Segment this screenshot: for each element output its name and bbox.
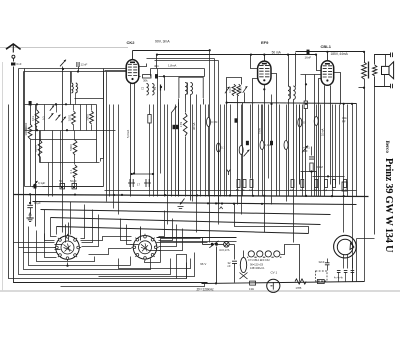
IF transformer 1 frame	[179, 77, 203, 98]
coil ant 2	[76, 83, 78, 93]
trimmer arrow	[61, 117, 66, 123]
wire	[242, 103, 244, 197]
wire socket2 right exit	[149, 250, 161, 252]
node	[62, 68, 64, 70]
wire	[62, 67, 64, 197]
svg-text:CY1 CBL1 EF9 CK2: CY1 CBL1 EF9 CK2	[248, 259, 270, 262]
wire mains top	[157, 237, 237, 239]
osc coil 1001	[228, 84, 236, 96]
svg-text:40n: 40n	[154, 64, 159, 68]
label	[249, 189, 253, 192]
wire	[327, 259, 329, 263]
svg-text:0.1: 0.1	[69, 169, 73, 174]
label	[317, 165, 324, 169]
node	[160, 86, 162, 88]
wire CK2 heater down	[134, 84, 136, 174]
wire EF9 grid left	[251, 55, 258, 69]
wire	[220, 105, 222, 197]
trimmer arrow	[50, 105, 54, 110]
osc coil 3001	[237, 84, 243, 96]
svg-text:4n 4n 4n: 4n 4n 4n	[334, 278, 344, 280]
wire nest 16	[13, 282, 15, 284]
coil 103	[31, 110, 39, 127]
ballast tube	[240, 257, 248, 279]
wire CBL1 cath down b	[330, 86, 332, 185]
wire	[218, 244, 224, 246]
wire	[185, 99, 187, 113]
antenna terminal	[12, 55, 15, 58]
wire OT bottom	[364, 79, 366, 197]
lamp dial	[224, 242, 230, 248]
wire	[244, 93, 246, 103]
svg-text:0,1µF: 0,1µF	[38, 181, 45, 185]
heater chain	[247, 251, 281, 257]
wire seg b	[313, 176, 345, 178]
capacitor speaker bottom	[391, 84, 393, 89]
wire	[345, 273, 347, 282]
wire	[96, 105, 98, 163]
wire	[314, 75, 316, 197]
wire nest 5	[130, 257, 132, 266]
junction	[270, 103, 272, 105]
wire	[356, 104, 358, 197]
scan page edge left	[2, 62, 4, 291]
wire	[178, 103, 180, 197]
label 5.6mA	[126, 130, 130, 138]
scan page edge bottom	[0, 290, 400, 292]
tube socket V1	[54, 234, 81, 261]
capacitor	[176, 125, 179, 129]
svg-text:96 V: 96 V	[200, 262, 206, 266]
label	[228, 264, 231, 268]
junction	[55, 103, 57, 105]
wire	[218, 153, 220, 225]
wire	[52, 131, 54, 197]
IF1 coil a	[185, 83, 187, 95]
wire	[156, 55, 158, 69]
IF1 coil b	[191, 83, 193, 95]
label	[332, 189, 335, 192]
junction	[250, 54, 252, 56]
svg-text:5000: 5000	[69, 144, 73, 151]
capacitor	[29, 101, 32, 105]
wire	[106, 72, 108, 202]
junction	[207, 202, 209, 204]
svg-text:1,8mA: 1,8mA	[168, 64, 176, 68]
label	[250, 267, 265, 270]
wire CK2 grid left	[105, 70, 127, 72]
wire	[279, 105, 281, 197]
IF2 coil b	[293, 86, 295, 100]
wire nest 9	[157, 242, 208, 244]
wire	[230, 105, 232, 197]
capacitor speaker top	[391, 53, 393, 58]
tube CK2	[126, 60, 139, 84]
wire	[103, 71, 105, 159]
resistor	[304, 101, 307, 109]
wire nest 13	[81, 237, 132, 241]
wire left frame 1	[9, 105, 187, 279]
wire	[160, 91, 162, 174]
resistor 0,2	[325, 180, 328, 188]
wire	[73, 125, 75, 131]
wire feeder 2	[155, 60, 219, 62]
wire	[224, 105, 226, 197]
wire	[352, 258, 354, 269]
speaker voice coil	[373, 65, 377, 76]
wire	[234, 264, 236, 283]
svg-text:3000: 3000	[85, 114, 89, 121]
wire socket2 left entry	[131, 244, 139, 246]
junction	[327, 175, 329, 177]
capacitor CV1	[267, 279, 280, 292]
svg-text:90V, 3mA: 90V, 3mA	[155, 40, 170, 44]
svg-text:103: 103	[31, 116, 35, 121]
label 90V 3mA	[155, 40, 170, 44]
wire	[113, 105, 115, 209]
wire	[286, 150, 288, 202]
resistor	[314, 117, 318, 126]
svg-text:36mA: 36mA	[192, 123, 196, 130]
label	[303, 149, 308, 153]
svg-text:EF9: EF9	[261, 40, 269, 45]
wire drop i	[121, 219, 132, 241]
wire drop m	[159, 225, 177, 247]
resistor	[284, 141, 288, 150]
junction	[287, 54, 289, 56]
wire electrolytic rail	[43, 186, 104, 188]
junction	[66, 265, 68, 267]
wire	[192, 105, 194, 202]
wire anode rail 90V	[133, 50, 210, 52]
label heater order	[248, 259, 270, 262]
resistor 5k	[243, 180, 246, 188]
junction	[215, 202, 217, 204]
wire CBL1 cath down a	[324, 86, 326, 197]
capacitor	[337, 271, 341, 273]
label 10000	[24, 122, 28, 130]
wire antenna down	[14, 67, 208, 283]
junction	[261, 203, 263, 205]
junction	[217, 202, 219, 204]
wire	[24, 69, 26, 187]
coil 0375	[34, 140, 42, 157]
wire tuner rail C	[40, 162, 100, 164]
coil 1001	[67, 111, 75, 125]
resistor	[342, 182, 347, 191]
wire	[262, 150, 264, 197]
wire	[75, 98, 104, 100]
wire left frame 2	[19, 69, 55, 248]
wire	[226, 85, 228, 103]
junction	[66, 129, 68, 131]
ground	[27, 213, 34, 222]
svg-text:12nF: 12nF	[81, 63, 88, 67]
wire socket1 left entry a	[55, 244, 63, 246]
wire nest 3	[19, 248, 171, 275]
tube socket V2	[131, 234, 158, 261]
junction	[305, 195, 307, 197]
wire CBL1 grid left	[317, 55, 322, 71]
svg-text:7mA: 7mA	[258, 128, 262, 134]
wire	[178, 99, 180, 197]
wire tuner rail B	[25, 130, 116, 132]
label	[137, 183, 141, 187]
wire grid rail lower	[24, 71, 127, 73]
label 185V 44mA	[331, 52, 349, 56]
wire	[71, 72, 73, 83]
label 1785	[296, 286, 302, 290]
svg-text:3001: 3001	[239, 87, 243, 93]
wire	[293, 100, 295, 243]
wire grid rail upper	[19, 68, 127, 70]
svg-text:1785: 1785	[296, 286, 302, 290]
wire	[226, 103, 228, 197]
wire	[203, 99, 205, 105]
wire	[74, 179, 76, 187]
wire	[347, 255, 349, 269]
resistor 50	[315, 180, 318, 188]
wire	[295, 53, 297, 87]
diode Y mark	[227, 170, 231, 176]
svg-text:0,1M: 0,1M	[317, 165, 324, 169]
junction	[263, 195, 265, 197]
wire	[208, 127, 210, 197]
wire EF9 pin left	[253, 79, 258, 197]
resistor 4n	[301, 180, 304, 188]
wire	[74, 131, 76, 141]
resistor 1n	[333, 180, 336, 188]
wire	[299, 105, 301, 185]
label	[319, 260, 325, 264]
resistor	[216, 143, 225, 152]
svg-text:PF: PF	[342, 120, 346, 124]
wire	[234, 245, 236, 260]
wire	[332, 105, 334, 197]
svg-text:+CV1: +CV1	[303, 146, 310, 150]
wire	[74, 155, 76, 165]
wire	[70, 72, 72, 105]
junction	[133, 172, 135, 174]
wire	[171, 113, 173, 197]
capacitor	[344, 271, 348, 273]
wire speaker stub top	[385, 55, 387, 67]
wire	[359, 87, 365, 89]
svg-text:16nF: 16nF	[305, 56, 312, 60]
wire	[208, 105, 210, 118]
wire	[241, 155, 243, 215]
trimmer arrow	[60, 60, 66, 67]
junction	[221, 202, 223, 204]
rectifier socket CY1	[334, 235, 357, 258]
wire	[343, 104, 345, 233]
label 1.8mA	[168, 64, 176, 68]
wire	[60, 131, 62, 187]
junction	[156, 54, 158, 56]
wire socket1 tail	[68, 263, 131, 266]
node	[163, 75, 165, 77]
wire drop j	[127, 225, 132, 245]
speaker	[382, 62, 394, 79]
label 36mA	[192, 123, 196, 130]
label	[303, 146, 310, 150]
svg-text:ZF=128kHz: ZF=128kHz	[197, 288, 214, 292]
capacitor	[270, 141, 273, 145]
wire left frame 3	[24, 72, 57, 253]
wire	[190, 95, 192, 201]
wire	[347, 105, 349, 197]
svg-text:1001: 1001	[67, 114, 71, 121]
wire	[30, 195, 32, 205]
wire	[218, 105, 220, 155]
wire	[305, 109, 307, 197]
wire	[281, 245, 300, 282]
resistor	[318, 279, 325, 283]
wire CK2 cathode down	[130, 84, 132, 197]
wire	[299, 127, 301, 185]
junction	[326, 51, 328, 53]
wire	[200, 105, 202, 197]
wire	[30, 139, 32, 187]
junction	[121, 194, 123, 196]
trimmer arrow	[243, 86, 248, 93]
wire EF9 pin right	[271, 74, 277, 197]
label	[38, 181, 45, 185]
wire	[91, 105, 93, 111]
bus 5	[57, 227, 309, 234]
wire screen rail	[157, 54, 289, 56]
junction	[305, 103, 307, 105]
label	[343, 189, 347, 192]
junction	[343, 195, 345, 197]
wire	[185, 137, 187, 197]
wire	[302, 172, 304, 179]
label	[342, 120, 346, 124]
capacitor	[173, 125, 176, 129]
wire	[311, 147, 313, 156]
trimmer arrow	[49, 113, 54, 119]
wire	[302, 105, 304, 197]
capacitor 32nF mains	[232, 261, 237, 263]
coil 5000	[69, 140, 77, 155]
coil 0.1	[69, 165, 77, 178]
wire	[316, 172, 318, 177]
label ZF	[197, 288, 214, 292]
label 7mA	[258, 128, 262, 134]
capacitor 40nF	[155, 74, 158, 78]
junction	[315, 54, 317, 56]
antenna	[6, 44, 21, 53]
resistor wirewound	[295, 279, 306, 284]
svg-text:CK2: CK2	[127, 40, 136, 45]
svg-text:185V, 44mA: 185V, 44mA	[331, 52, 349, 56]
junction	[29, 193, 31, 195]
wire CK2 pin right b	[139, 76, 141, 78]
junction	[163, 75, 165, 77]
wire	[73, 105, 75, 111]
wire	[36, 127, 38, 131]
label	[300, 189, 303, 192]
wire speaker bottom	[375, 77, 391, 87]
label	[250, 263, 264, 266]
wire	[109, 105, 111, 197]
wire antenna lead	[13, 59, 15, 62]
wire drop h	[82, 215, 99, 247]
tuning gang link	[131, 173, 155, 175]
wire	[164, 105, 166, 197]
junction	[113, 194, 115, 196]
wire	[364, 197, 366, 282]
svg-text:CV 1: CV 1	[271, 271, 278, 275]
wire right drop	[374, 87, 376, 235]
junction	[74, 194, 76, 196]
wire nest 17	[61, 284, 205, 287]
svg-text:6nF: 6nF	[16, 62, 21, 66]
wire nest 18	[60, 263, 62, 287]
label	[290, 189, 294, 192]
wire	[237, 96, 239, 205]
wire	[167, 105, 169, 225]
coil 3000	[85, 111, 93, 124]
wire corner	[101, 159, 104, 162]
bus 1	[14, 195, 369, 197]
wire	[204, 69, 206, 77]
wire socket1 top entry b	[68, 223, 70, 241]
wire	[214, 59, 216, 105]
wire antenna entry	[14, 242, 55, 244]
wire nest 2	[24, 253, 151, 270]
title Berco	[384, 141, 389, 154]
wire osc bottom rail	[227, 103, 357, 104]
junction	[164, 194, 166, 196]
trimmer arrow	[171, 106, 176, 112]
label 30k PF	[342, 116, 347, 120]
capacitor	[235, 118, 238, 122]
wire 1.8mA line	[151, 68, 205, 70]
coil 30000	[24, 124, 32, 139]
wire	[250, 105, 252, 179]
wire	[262, 105, 264, 141]
wire tuner rail D	[25, 186, 104, 188]
IF2 core	[290, 87, 292, 99]
svg-text:50 mA: 50 mA	[272, 51, 282, 55]
wire drop e	[70, 202, 72, 235]
wire seg a	[301, 171, 317, 173]
wire	[30, 208, 32, 214]
label	[324, 189, 328, 192]
coil C0	[152, 84, 154, 96]
wire	[48, 163, 50, 197]
wire	[230, 244, 235, 246]
wire nest 1	[29, 227, 68, 266]
wire nest 14	[119, 259, 191, 269]
wire CBL1 anode top	[327, 52, 329, 61]
bus mains	[202, 282, 365, 284]
wire	[196, 95, 198, 233]
label CBL1	[321, 44, 332, 49]
capacitor ground	[27, 205, 32, 207]
node	[36, 103, 38, 105]
svg-text:0,3M: 0,3M	[211, 120, 218, 124]
svg-text:0,3: 0,3	[42, 116, 46, 120]
capacitor 16nF	[307, 50, 310, 54]
resistor 50	[237, 180, 240, 188]
wire	[305, 75, 307, 101]
wire	[327, 265, 329, 271]
wire	[343, 255, 345, 269]
trimmer arrow	[56, 115, 61, 121]
wire CBL1 pin left2	[319, 79, 322, 197]
